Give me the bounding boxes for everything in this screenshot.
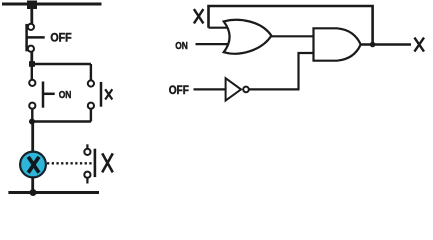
- svg-text:OFF: OFF: [169, 83, 189, 97]
- svg-text:ON: ON: [175, 40, 188, 52]
- svg-text:ON: ON: [59, 89, 72, 101]
- svg-text:OFF: OFF: [50, 33, 71, 45]
